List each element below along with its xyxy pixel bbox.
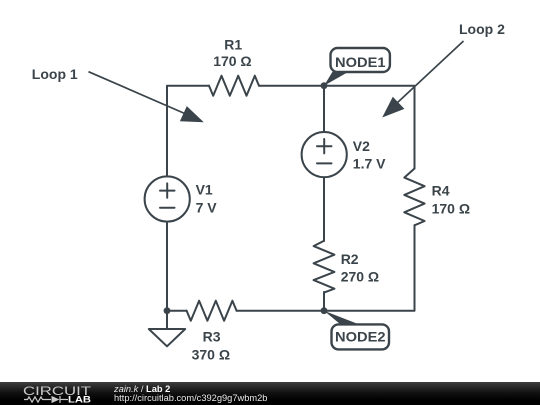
svg-text:270 Ω: 270 Ω — [341, 269, 379, 285]
svg-text:V2: V2 — [353, 138, 370, 154]
svg-text:NODE2: NODE2 — [335, 329, 386, 345]
svg-text:Loop 1: Loop 1 — [32, 66, 78, 82]
Loop 2 arrow line — [397, 41, 464, 103]
wire R2 bottom to NODE2 — [323, 292, 325, 311]
logo resistor-diode squiggle — [24, 396, 68, 403]
svg-text:LAB: LAB — [68, 395, 92, 405]
Loop 2 arrowhead — [382, 97, 404, 118]
resistor R2 zigzag — [314, 241, 335, 293]
resistor R4 zigzag — [404, 169, 424, 226]
svg-text:Loop 2: Loop 2 — [459, 21, 505, 37]
wire ground junction to R3 left lead — [167, 310, 187, 312]
NODE2 callout wedge — [324, 311, 358, 324]
NODE2 label box — [332, 324, 390, 349]
wire middle: NODE1 down to V2 top — [323, 86, 325, 132]
V1 plus sign — [160, 183, 175, 197]
junction dot node NODE1 — [321, 82, 328, 89]
svg-text:170 Ω: 170 Ω — [432, 201, 470, 217]
wire left vertical: V1 bottom to ground junction — [166, 222, 168, 311]
CircuitLab logo — [23, 382, 123, 405]
wire R4 bottom to bottom-right corner to NODE2 — [324, 225, 415, 310]
wire NODE1 to top-right corner and down to R4 — [324, 86, 415, 169]
Loop 1 arrow line — [89, 72, 188, 115]
ground stub wire — [166, 311, 168, 329]
svg-text:7 V: 7 V — [196, 199, 218, 215]
svg-text:R3: R3 — [203, 329, 221, 345]
svg-text:R4: R4 — [432, 183, 450, 199]
svg-text:R2: R2 — [341, 251, 359, 267]
ground symbol triangle — [149, 329, 185, 346]
voltage source V2 circle — [302, 132, 347, 177]
svg-text:V1: V1 — [196, 181, 213, 197]
junction dot node NODE2 — [321, 307, 328, 314]
wire R1 right to node NODE1 — [259, 85, 324, 87]
wire top-left horizontal (corner to R1 left lead) — [167, 86, 209, 177]
svg-text:R1: R1 — [224, 36, 242, 52]
resistor R3 zigzag — [187, 301, 237, 321]
junction dot at ground — [164, 307, 171, 314]
resistor R1 zigzag — [209, 76, 259, 96]
NODE1 label box — [331, 48, 390, 72]
V2 plus sign — [317, 139, 332, 153]
wire V2 bottom to R2 top — [323, 177, 325, 241]
footer bar — [0, 382, 540, 405]
svg-text:1.7 V: 1.7 V — [353, 156, 386, 172]
Loop 1 arrowhead — [180, 106, 204, 122]
svg-text:NODE1: NODE1 — [335, 54, 386, 70]
NODE1 callout wedge — [324, 72, 349, 86]
V2 minus sign — [317, 162, 332, 164]
logo diode triangle — [52, 396, 60, 403]
svg-text:370 Ω: 370 Ω — [192, 347, 230, 363]
V1 minus sign — [160, 207, 175, 209]
svg-text:170 Ω: 170 Ω — [213, 53, 251, 69]
footer attribution text — [114, 385, 267, 403]
voltage source V1 circle — [145, 176, 190, 221]
wire R3 right to NODE2 — [237, 310, 324, 312]
